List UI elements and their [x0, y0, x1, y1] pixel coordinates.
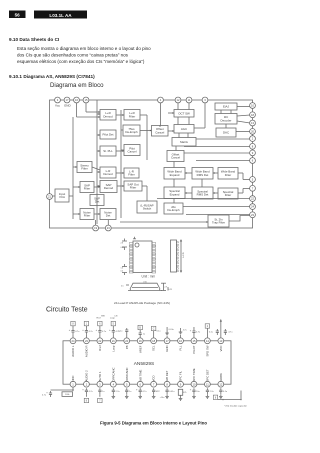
- svg-text:VCC: VCC: [219, 346, 223, 352]
- svg-text:1: 1: [86, 324, 88, 326]
- svg-text:AUDIO 2: AUDIO 2: [85, 370, 89, 382]
- svg-text:Vcc: Vcc: [55, 104, 61, 108]
- svg-text:12: 12: [177, 98, 180, 102]
- svg-text:RMS Det: RMS Det: [197, 173, 209, 177]
- svg-text:Switch: Switch: [143, 207, 152, 211]
- svg-text:4.7u: 4.7u: [228, 332, 233, 334]
- svg-text:dos CIs que são desenhados com: dos CIs que são desenhados como “caixas …: [17, 53, 129, 58]
- svg-text:Diagrama em Bloco: Diagrama em Bloco: [50, 82, 104, 89]
- svg-text:Rref: Rref: [98, 345, 102, 351]
- svg-text:Expand: Expand: [170, 173, 180, 177]
- svg-text:SPC FIL: SPC FIL: [179, 370, 183, 381]
- svg-text:2.8: 2.8: [121, 243, 124, 245]
- svg-text:VCO: VCO: [152, 375, 156, 382]
- svg-text:esquemas elétricos (com exceçã: esquemas elétricos (com exceção dos CIs …: [17, 59, 145, 64]
- svg-text:18: 18: [251, 113, 254, 117]
- svg-text:0.5: 0.5: [121, 286, 124, 288]
- svg-text:B: B: [139, 328, 141, 330]
- svg-text:24: 24: [72, 339, 75, 343]
- svg-text:22: 22: [251, 197, 254, 201]
- svg-text:Filter: Filter: [225, 173, 231, 177]
- svg-text:WB TIME: WB TIME: [138, 369, 142, 381]
- svg-text:6: 6: [215, 397, 217, 399]
- svg-text:+: +: [96, 329, 98, 332]
- svg-text:+: +: [136, 389, 138, 392]
- svg-text:De-Emph: De-Emph: [167, 208, 180, 212]
- svg-text:+: +: [82, 329, 84, 332]
- svg-text:Filter: Filter: [129, 114, 135, 118]
- svg-text:9.10.1 Diagrama AS, AN5829S (C: 9.10.1 Diagrama AS, AN5829S (CI7841): [9, 74, 95, 79]
- svg-text:2: 2: [207, 326, 209, 328]
- svg-text:Expand: Expand: [170, 192, 180, 196]
- svg-text:100k: 100k: [65, 394, 70, 396]
- svg-text:WB DET: WB DET: [165, 370, 169, 381]
- svg-text:+: +: [109, 329, 111, 332]
- svg-text:+10u: +10u: [160, 397, 166, 399]
- svg-text:L03.1L AA: L03.1L AA: [49, 13, 72, 18]
- svg-text:13: 13: [251, 121, 254, 125]
- svg-text:4.7u: 4.7u: [142, 391, 147, 393]
- svg-text:15: 15: [192, 339, 195, 343]
- svg-text:Unit : mm: Unit : mm: [142, 275, 156, 279]
- svg-text:21: 21: [112, 339, 115, 343]
- svg-text:Circuito Teste: Circuito Teste: [46, 306, 88, 313]
- svg-text:9: 9: [86, 401, 88, 403]
- svg-text:OCT SW: OCT SW: [178, 111, 190, 115]
- svg-text:St. PLL: St. PLL: [103, 149, 113, 153]
- svg-text:Filter: Filter: [225, 193, 231, 197]
- svg-text:PB: PB: [125, 345, 129, 349]
- svg-text:OPRCANC: OPRCANC: [125, 368, 129, 382]
- svg-text:1u: 1u: [143, 334, 145, 336]
- svg-text:0.01u: 0.01u: [169, 329, 175, 331]
- svg-text:Filter: Filter: [130, 186, 136, 190]
- svg-text:Det: Det: [106, 214, 111, 218]
- svg-text:2.2u: 2.2u: [210, 391, 215, 393]
- svg-text:22: 22: [98, 339, 101, 343]
- svg-text:+: +: [82, 389, 84, 392]
- svg-text:0.1u: 0.1u: [223, 391, 228, 393]
- svg-text:0.1u: 0.1u: [157, 331, 161, 333]
- svg-text:17: 17: [166, 339, 169, 343]
- svg-text:14: 14: [206, 339, 209, 343]
- svg-text:EiAJ: EiAJ: [223, 105, 229, 109]
- svg-text:0.1u: 0.1u: [118, 331, 123, 333]
- svg-text:RMS Det: RMS Det: [197, 193, 209, 197]
- svg-text:SPC DET: SPC DET: [206, 369, 210, 381]
- svg-text:AN5829S: AN5829S: [134, 361, 155, 367]
- svg-text:0.25: 0.25: [169, 289, 173, 291]
- svg-text:24-Lead P ANAPLAE Package (SO-: 24-Lead P ANAPLAE Package (SO-24S): [114, 301, 170, 305]
- svg-text:20: 20: [125, 339, 128, 343]
- svg-text:+: +: [69, 329, 71, 332]
- svg-text:Loop: Loop: [111, 345, 115, 352]
- svg-text:AGC: AGC: [181, 127, 187, 131]
- svg-text:Figura 9-5 Diagrama em Bloco I: Figura 9-5 Diagrama em Bloco Interno e L…: [100, 420, 207, 425]
- svg-text:56: 56: [15, 12, 21, 17]
- svg-text:0.65: 0.65: [121, 247, 125, 249]
- svg-text:Demod: Demod: [103, 114, 113, 118]
- svg-text:+: +: [190, 389, 192, 392]
- svg-text:0.1u: 0.1u: [209, 332, 214, 334]
- svg-text:Demod: Demod: [104, 186, 114, 190]
- svg-text:11: 11: [206, 382, 209, 386]
- svg-text:Filter: Filter: [128, 173, 134, 177]
- svg-text:0.4: 0.4: [121, 271, 124, 273]
- svg-text:4.7u: 4.7u: [102, 331, 107, 333]
- svg-text:1u: 1u: [129, 391, 132, 393]
- svg-text:AUTO 1: AUTO 1: [98, 371, 102, 381]
- svg-text:Pilot Det: Pilot Det: [103, 133, 114, 137]
- svg-text:Cancel: Cancel: [171, 156, 180, 160]
- svg-text:* (To) insulate capacitor: * (To) insulate capacitor: [224, 404, 247, 407]
- svg-text:De-Emph: De-Emph: [125, 130, 138, 134]
- svg-text:5: 5: [113, 324, 115, 326]
- svg-text:Decoder: Decoder: [221, 118, 232, 122]
- svg-text:PLL: PLL: [179, 345, 183, 350]
- svg-text:13: 13: [219, 339, 222, 343]
- svg-text:2.9: 2.9: [165, 287, 168, 289]
- svg-text:+: +: [46, 392, 48, 395]
- svg-text:10: 10: [192, 382, 195, 386]
- svg-text:9.10 Data Sheets do CI: 9.10 Data Sheets do CI: [9, 37, 59, 42]
- svg-text:Cancel: Cancel: [128, 150, 137, 154]
- svg-text:W/B: W/B: [101, 315, 105, 317]
- svg-text:WDBK: WDBK: [219, 373, 223, 382]
- svg-text:23: 23: [107, 226, 110, 230]
- svg-text:4.7u: 4.7u: [196, 332, 201, 334]
- svg-text:23: 23: [85, 339, 88, 343]
- svg-text:1.6: 1.6: [121, 268, 124, 270]
- svg-text:Loop: Loop: [110, 317, 116, 319]
- svg-text:19: 19: [139, 339, 142, 343]
- svg-text:18: 18: [152, 339, 155, 343]
- svg-text:Filter: Filter: [84, 214, 90, 218]
- svg-text:PILOT: PILOT: [192, 345, 196, 353]
- svg-text:47k: 47k: [183, 392, 187, 394]
- svg-text:4.7u: 4.7u: [42, 395, 47, 397]
- svg-text:SCL: SCL: [152, 345, 156, 351]
- svg-text:4.7u: 4.7u: [89, 391, 94, 393]
- svg-text:SPD SW: SPD SW: [206, 345, 210, 356]
- svg-text:OPRCANC: OPRCANC: [111, 368, 115, 382]
- svg-text:Filter: Filter: [81, 167, 87, 171]
- svg-text:SPC TIME: SPC TIME: [192, 368, 196, 381]
- svg-text:17: 17: [66, 98, 69, 102]
- svg-text:Cancel: Cancel: [155, 130, 164, 134]
- svg-text:14.35: 14.35: [183, 251, 185, 257]
- svg-text:7: 7: [99, 401, 101, 403]
- svg-text:0.01u: 0.01u: [169, 391, 175, 393]
- svg-text:Esta seção mostra o diagrama e: Esta seção mostra o diagrama em bloco in…: [17, 46, 151, 51]
- svg-text:24: 24: [251, 205, 254, 209]
- svg-text:GND: GND: [165, 346, 169, 352]
- svg-text:NDC: NDC: [71, 375, 75, 381]
- svg-text:VCA: VCA: [59, 195, 65, 199]
- svg-text:16: 16: [179, 339, 182, 343]
- svg-text:AUDIO L: AUDIO L: [71, 345, 75, 357]
- svg-text:AUDIO R: AUDIO R: [85, 346, 89, 358]
- svg-text:Det: Det: [95, 200, 100, 204]
- svg-text:+: +: [190, 330, 192, 333]
- svg-text:20: 20: [251, 130, 254, 134]
- svg-text:19: 19: [94, 226, 97, 230]
- svg-text:4.7u: 4.7u: [75, 331, 80, 333]
- svg-text:C: C: [153, 329, 155, 331]
- svg-text:21: 21: [48, 195, 51, 199]
- svg-text:11: 11: [188, 98, 191, 102]
- svg-text:GND: GND: [64, 104, 72, 108]
- svg-text:Matrix: Matrix: [180, 140, 188, 144]
- svg-text:4.7u: 4.7u: [89, 331, 94, 333]
- svg-text:6: 6: [99, 324, 101, 326]
- svg-text:10: 10: [251, 104, 254, 108]
- svg-text:8: 8: [72, 324, 74, 326]
- svg-text:16: 16: [75, 98, 78, 102]
- svg-text:DAC: DAC: [223, 131, 229, 135]
- svg-text:1u: 1u: [102, 391, 105, 393]
- svg-text:12: 12: [219, 382, 222, 386]
- svg-text:Filter: Filter: [84, 187, 90, 191]
- svg-text:SPC: SPC: [156, 391, 161, 393]
- svg-text:23: 23: [251, 213, 254, 217]
- svg-text:L/B: L/B: [115, 315, 119, 317]
- svg-text:Trap Filter: Trap Filter: [212, 221, 225, 225]
- svg-text:0.65: 0.65: [143, 281, 147, 283]
- svg-text:2.2u: 2.2u: [116, 391, 121, 393]
- svg-text:15: 15: [85, 98, 88, 102]
- svg-text:Demod: Demod: [103, 172, 113, 176]
- svg-text:4.7u: 4.7u: [183, 330, 187, 332]
- svg-text:10u: 10u: [196, 391, 200, 393]
- svg-text:VREF: VREF: [138, 345, 142, 353]
